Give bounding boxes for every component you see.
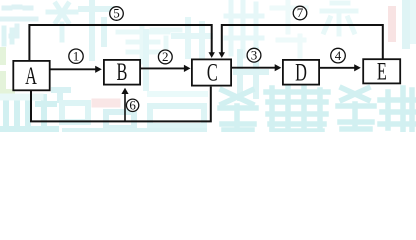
arrowhead into C top from wire 7 [219,52,225,58]
arrow 3: C to D [232,67,275,69]
glyph behind 2 [152,30,180,52]
label 7 [293,5,307,20]
box E [363,57,400,86]
svg-text:3: 3 [251,47,258,62]
svg-text:7: 7 [297,5,304,20]
label 5 [110,6,124,21]
wire: branch up from bottom wire into B (6) [124,93,126,121]
arrowhead into C top from wire 5 [209,52,215,58]
watermark shapes (decorative) [1,0,416,132]
bar left of B-C gap [143,32,149,88]
box D [283,58,319,87]
wire: E top up and left to C top (feedback 7) [222,25,383,59]
faint bars behind 7 [272,2,306,56]
arrow 2: B to C [141,67,184,69]
svg-text:4: 4 [335,48,342,63]
glyph x318-360 top [322,3,356,34]
svg-text:C: C [207,58,218,87]
box B [104,58,140,87]
arrowhead into B bottom [121,88,128,94]
svg-text:6: 6 [129,98,136,113]
svg-text:B: B [117,58,128,87]
faint bits near 5 [118,28,168,62]
svg-text:D: D [295,58,307,87]
left-mid green [3,50,12,94]
bottom pink bar + rect [96,99,116,108]
glyph right of C [236,50,266,98]
svg-text:5: 5 [113,6,120,21]
bottom blocky rect 2 [150,106,204,126]
bottom-left glyph [2,97,56,132]
box C [192,58,231,87]
bottom dense glyph [266,85,328,132]
top-left glyph [1,7,36,36]
arrow 4: D to E [320,67,355,69]
faint bars x222-262 [226,0,262,56]
bottom blocky rect 1 [62,103,88,122]
wire: A top up and right to C top (feedback 5) [29,25,211,61]
label 2 [158,49,172,64]
svg-text:2: 2 [162,49,169,64]
svg-text:1: 1 [73,48,80,63]
bottom glyph sha 1 [220,90,256,130]
glyph x80-112 top [81,2,111,58]
label 3 [247,47,261,62]
right-edge glyphs [392,1,414,45]
vertical bars behind C top [174,20,210,58]
label 1 [69,48,83,63]
box A [13,61,49,90]
bottom glyph sha 2 [338,88,416,132]
arrow 1: A to B [50,68,96,70]
label 4 [331,48,346,63]
svg-text:E: E [377,57,387,86]
wire: A bottom down, right along bottom, up to C bottom [31,87,211,122]
extra left-edge strokes [4,28,12,44]
label 6 [126,98,138,113]
cyan blob below-right of A [54,90,68,100]
glyph x46-76 top [48,4,76,40]
svg-text:A: A [25,61,37,90]
